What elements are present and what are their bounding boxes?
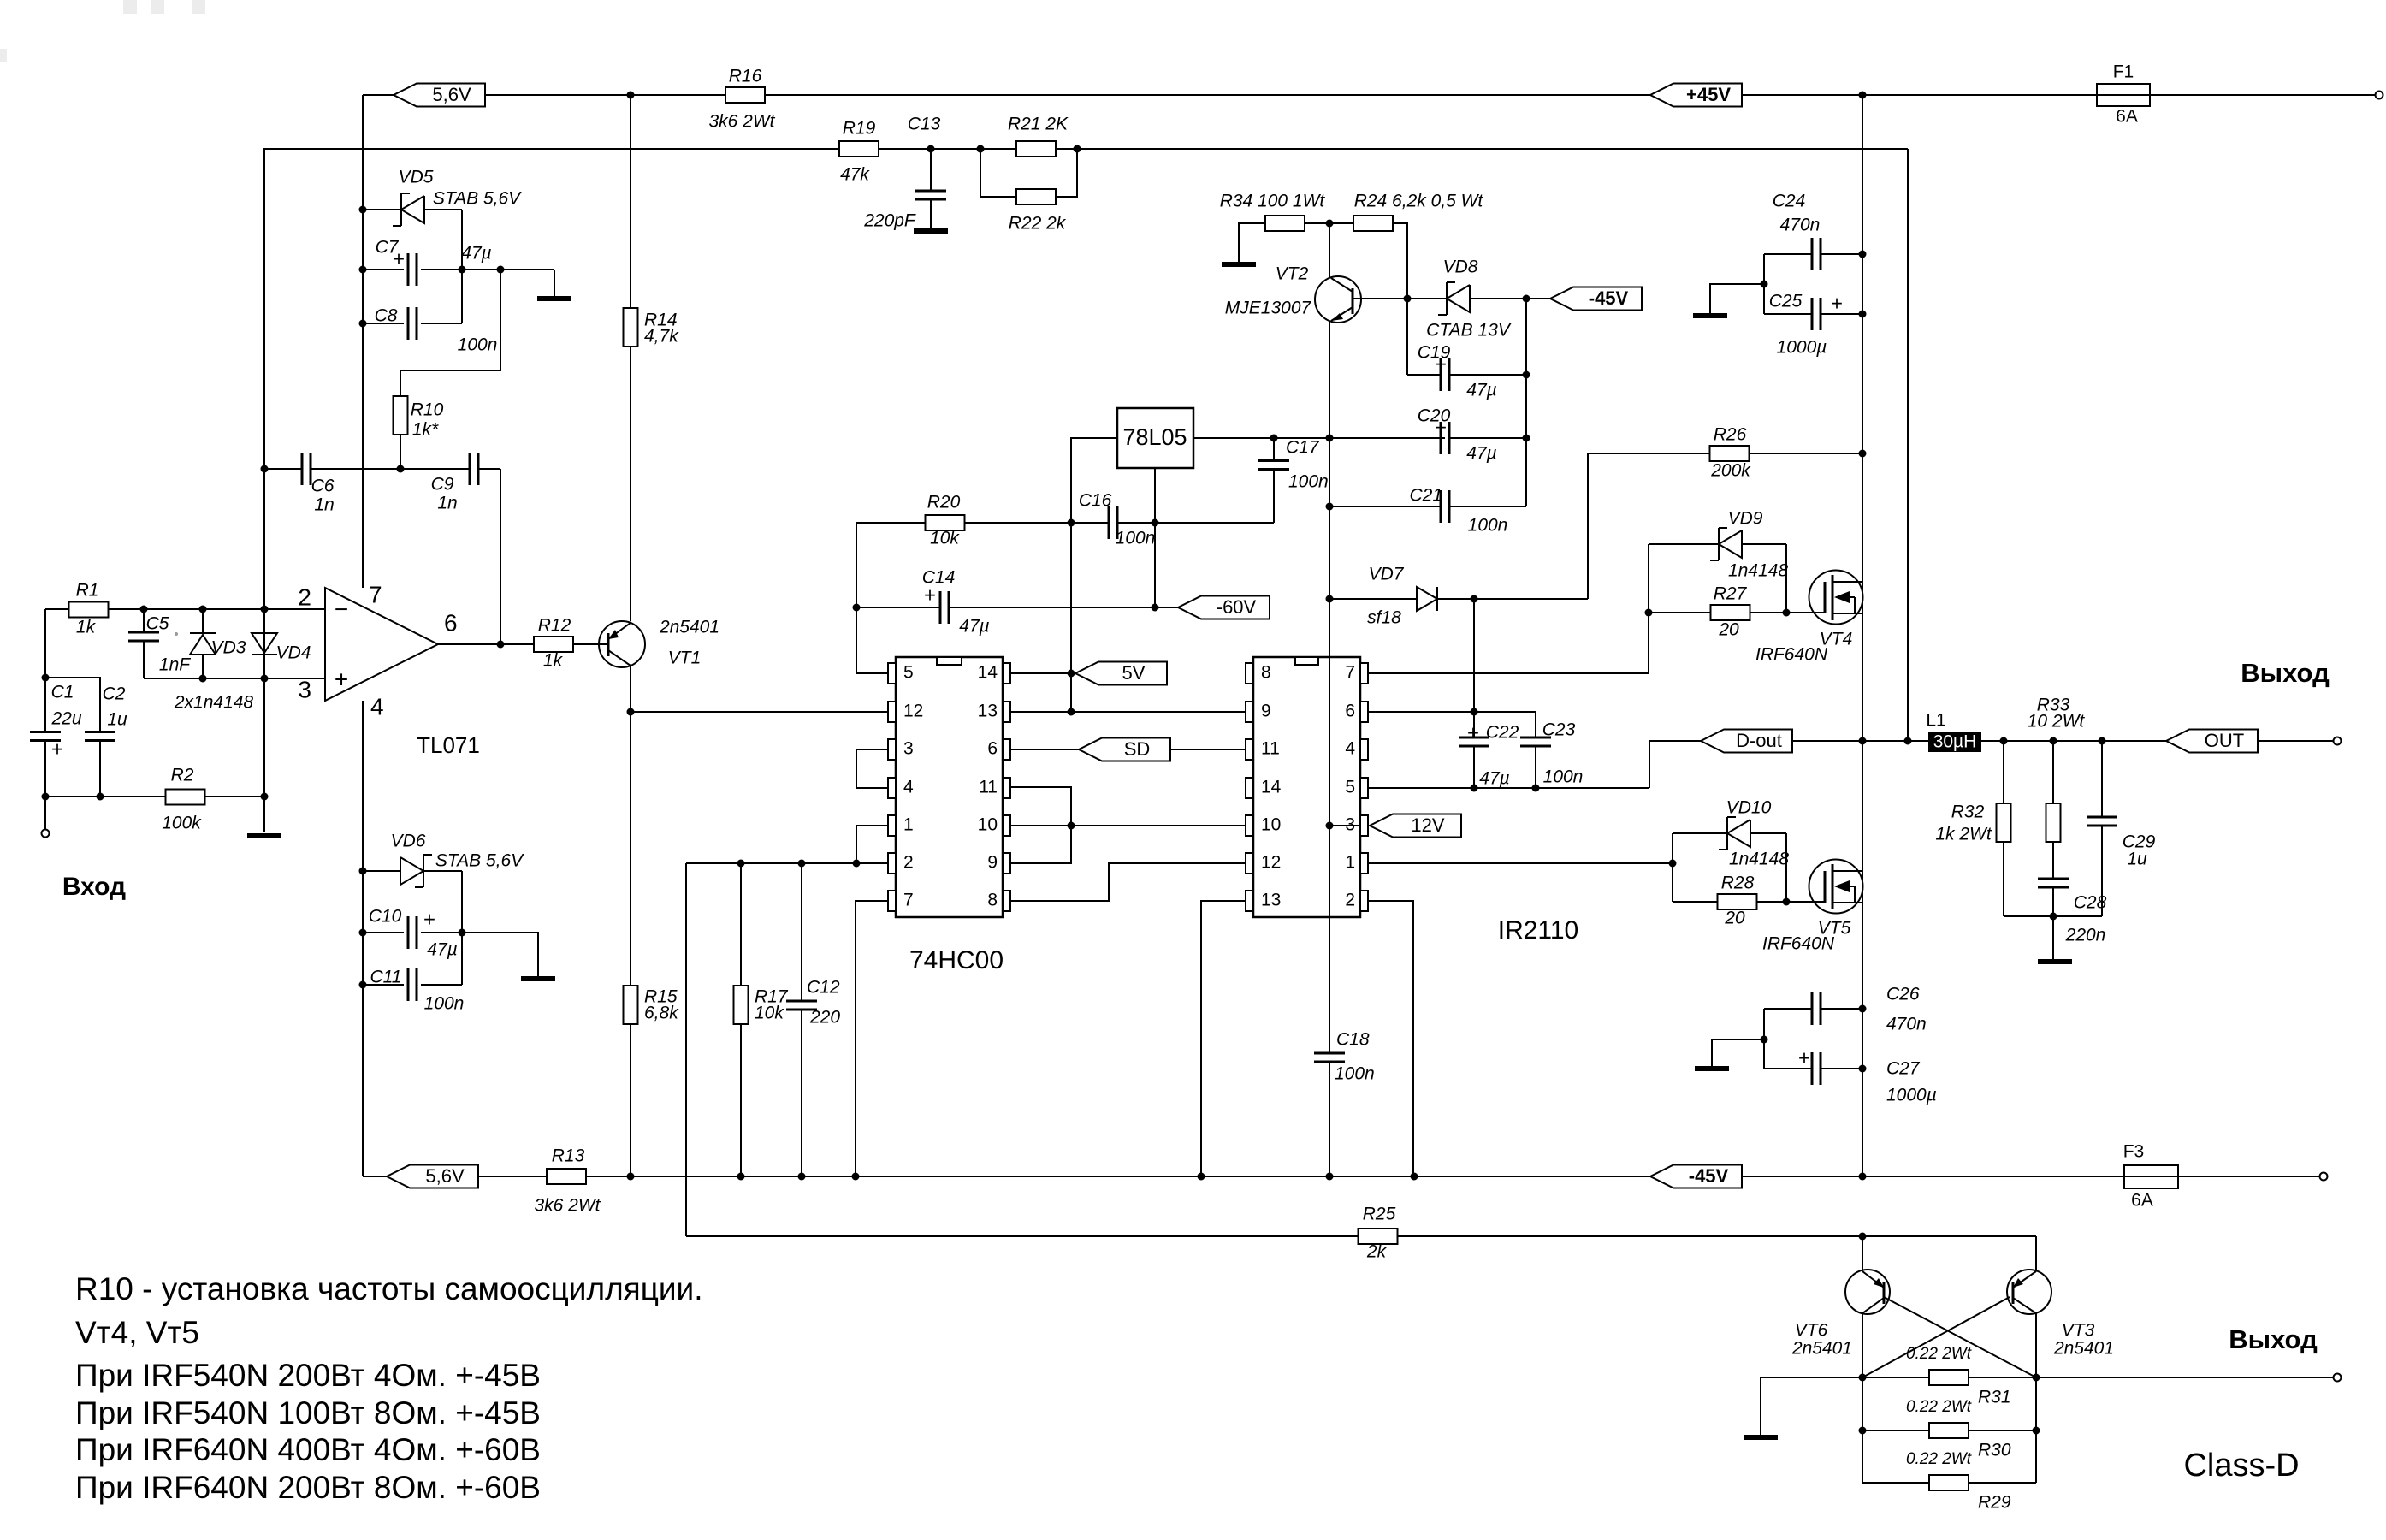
svg-text:R27: R27 xyxy=(1714,584,1748,604)
svg-text:2n5401: 2n5401 xyxy=(659,618,719,637)
capacitor C10 47u xyxy=(363,932,462,933)
terminal OUT xyxy=(2334,737,2342,745)
ground C26 C27 xyxy=(1712,1039,1764,1066)
net flag -45V (bottom) xyxy=(1650,1165,1742,1188)
svg-text:C2: C2 xyxy=(103,684,126,704)
wire R17 branch xyxy=(740,863,742,1176)
svg-text:470n: 470n xyxy=(1780,216,1821,235)
resistor R25 2k xyxy=(1359,1229,1398,1244)
resistor R28 20 xyxy=(1673,901,1718,903)
svg-text:30µH: 30µH xyxy=(1933,732,1977,752)
svg-text:6: 6 xyxy=(444,609,458,636)
svg-text:1n: 1n xyxy=(314,495,334,515)
svg-text:10k: 10k xyxy=(930,529,960,548)
svg-text:R25: R25 xyxy=(1363,1205,1396,1224)
wire input R1 left lead xyxy=(45,609,69,678)
resistor R13 3k6 2Wt xyxy=(547,1169,586,1184)
svg-text:1k*: 1k* xyxy=(412,420,439,440)
svg-text:R34 100 1Wt: R34 100 1Wt xyxy=(1220,192,1326,211)
wire filter bottom row xyxy=(2004,915,2102,917)
svg-text:L1: L1 xyxy=(1926,711,1945,731)
junction dots feedback line xyxy=(927,145,935,153)
svg-text:R29: R29 xyxy=(1978,1493,2011,1513)
junction dot R34 R24 xyxy=(1326,220,1334,228)
svg-text:1u: 1u xyxy=(107,710,127,730)
wire IR2110 pin2 to bottom rail xyxy=(1368,901,1413,1176)
zener diode VD10 1n4148 xyxy=(1673,832,1727,834)
junction dot pin6 row xyxy=(1471,708,1478,716)
wire rail flag to R13 xyxy=(477,1176,547,1177)
wire opamp pin3 line xyxy=(144,678,325,679)
svg-text:100n: 100n xyxy=(1288,472,1329,492)
wire 74HC00 pin2 row xyxy=(686,862,888,864)
net flag SD xyxy=(1079,738,1170,761)
wire 74HC00 pin14 to 5V xyxy=(1010,672,1071,674)
resistor R20 10k xyxy=(926,515,965,530)
svg-text:C25: C25 xyxy=(1769,292,1803,311)
capacitor C14 47u xyxy=(856,607,940,608)
ground output filter xyxy=(2052,916,2054,959)
wire IR2110 pin13 to bottom rail xyxy=(1201,901,1246,1176)
svg-text:47µ: 47µ xyxy=(1479,769,1509,789)
wire VT2 collector xyxy=(1329,223,1330,277)
junction dots bottom rail xyxy=(627,1173,635,1181)
svg-text:VD4: VD4 xyxy=(276,643,311,663)
capacitor C11 100n xyxy=(363,984,462,986)
diode VD4 xyxy=(252,609,277,678)
svg-text:7: 7 xyxy=(369,581,382,607)
svg-text:R24 6,2k 0,5 Wt: R24 6,2k 0,5 Wt xyxy=(1354,192,1484,211)
svg-text:VD10: VD10 xyxy=(1726,798,1772,818)
svg-text:IRF640N: IRF640N xyxy=(1762,934,1835,954)
svg-text:R10 - установка частоты самоос: R10 - установка частоты самоосцилляции. xyxy=(75,1271,703,1306)
wire OUT to terminal xyxy=(2258,740,2333,742)
wire C26 C27 left bracket xyxy=(1763,1009,1765,1069)
svg-text:47k: 47k xyxy=(840,165,870,185)
wire IR2110 pin1 row xyxy=(1368,862,1673,864)
ground C24 C25 xyxy=(1710,284,1764,313)
wire R25 to VT6 VT3 xyxy=(1397,1235,2036,1237)
junction dots R27 xyxy=(1645,609,1653,617)
resistor R34 xyxy=(1265,216,1305,231)
resistor R31 0.22 2Wt xyxy=(1929,1370,1969,1385)
wire R1 to opamp pin2 xyxy=(108,608,325,610)
svg-text:2: 2 xyxy=(1345,891,1355,910)
svg-text:VT6: VT6 xyxy=(1795,1321,1828,1341)
svg-text:R28: R28 xyxy=(1721,874,1755,893)
wire VT6 base cross diagonal xyxy=(1884,1297,2036,1377)
svg-text:8: 8 xyxy=(987,891,998,910)
wire R21 to corner x2230 xyxy=(1056,148,1908,150)
svg-text:4: 4 xyxy=(370,693,384,720)
wire R15 to bottom rail xyxy=(630,1024,631,1176)
svg-text:+: + xyxy=(1435,416,1447,439)
wire 74HC00 pin13 to IR2110 pin9 xyxy=(1010,711,1246,713)
net flag D-out xyxy=(1701,730,1792,753)
svg-text:14: 14 xyxy=(978,663,998,683)
svg-text:STAB 5,6V: STAB 5,6V xyxy=(433,189,522,209)
capacitor C25 1000u xyxy=(1764,313,1812,315)
junction dot pin1 xyxy=(1669,860,1677,868)
svg-text:6: 6 xyxy=(1345,702,1355,721)
wire bottom rail -45V to F3 xyxy=(1741,1176,2124,1177)
capacitor C28 220n xyxy=(2038,879,2069,887)
scan artifact marks xyxy=(0,0,205,62)
IC U2 74HC00 xyxy=(896,657,1003,917)
svg-text:VT1: VT1 xyxy=(668,649,702,668)
svg-text:47µ: 47µ xyxy=(461,244,491,264)
svg-text:R10: R10 xyxy=(411,400,444,420)
junction dots top rail xyxy=(627,92,635,99)
wire R25 row left xyxy=(686,1235,1359,1237)
wire VT3 emitter lead xyxy=(2035,1236,2037,1270)
svg-text:5: 5 xyxy=(1345,778,1355,797)
wire 74HC00 pin5 lead xyxy=(856,523,888,673)
ground VT6 emitter resistors xyxy=(1744,1435,1778,1440)
regulator 78L05 xyxy=(1117,408,1193,468)
svg-text:6A: 6A xyxy=(2116,107,2138,127)
svg-text:4: 4 xyxy=(903,778,914,797)
svg-text:470n: 470n xyxy=(1886,1015,1927,1034)
svg-text:1: 1 xyxy=(903,815,914,835)
svg-text:1n4148: 1n4148 xyxy=(1728,561,1788,581)
capacitor C16 100n xyxy=(1109,506,1117,539)
svg-text:R1: R1 xyxy=(76,581,99,601)
svg-text:R31: R31 xyxy=(1978,1388,2011,1407)
net flag 5,6V (bottom) xyxy=(387,1165,478,1188)
svg-text:C12: C12 xyxy=(807,978,840,998)
svg-text:+: + xyxy=(393,247,405,270)
junction dot R28 gate xyxy=(1783,898,1791,906)
svg-text:14: 14 xyxy=(1261,778,1282,797)
svg-text:1k: 1k xyxy=(76,618,97,637)
net flag +45V xyxy=(1650,84,1742,107)
wire R34-R24 xyxy=(1305,222,1353,224)
wire VT6 collector lead xyxy=(1862,1313,1863,1377)
svg-text:2n5401: 2n5401 xyxy=(2053,1339,2114,1359)
svg-text:C16: C16 xyxy=(1079,491,1112,511)
capacitor C5 1nF xyxy=(143,609,145,678)
wire 74HC00 pin7 to rail xyxy=(856,901,888,1176)
wire 78L05 right pin xyxy=(1193,437,1445,439)
svg-text:4,7k: 4,7k xyxy=(644,327,679,346)
net flag -60V xyxy=(1178,596,1270,619)
wire VD7 row left xyxy=(1329,598,1417,600)
junction dot opamp output xyxy=(497,641,505,649)
svg-text:12: 12 xyxy=(903,702,923,721)
svg-text:1000µ: 1000µ xyxy=(1777,338,1827,358)
svg-text:VD6: VD6 xyxy=(391,832,426,851)
svg-text:D-out: D-out xyxy=(1736,730,1782,751)
svg-text:F3: F3 xyxy=(2123,1142,2145,1162)
wire R24 right down xyxy=(1393,223,1407,299)
terminal -45V xyxy=(2320,1173,2328,1181)
svg-text:47µ: 47µ xyxy=(959,617,989,637)
wire R14 branch x737 xyxy=(630,95,631,621)
svg-text:R26: R26 xyxy=(1714,425,1747,445)
svg-text:C18: C18 xyxy=(1336,1030,1370,1050)
wire VT6 VT3 vertical legs xyxy=(1862,1377,2036,1483)
resistor R17 10k xyxy=(734,986,749,1024)
svg-text:C22: C22 xyxy=(1486,723,1519,743)
ground below R2 node xyxy=(247,833,281,838)
wire SD to IR2110 pin11 xyxy=(1170,749,1246,750)
junction dot VT1 collector xyxy=(627,708,635,716)
junction dots C6 C9 row xyxy=(261,465,269,473)
terminal +45V input xyxy=(2376,92,2383,99)
svg-text:220n: 220n xyxy=(2065,926,2106,945)
wire IR2110 pin12 to 74HC00 pin8 xyxy=(1010,863,1246,901)
resistor R1 1k xyxy=(69,602,109,618)
svg-text:6: 6 xyxy=(987,739,998,759)
fuse F3 xyxy=(2124,1165,2178,1188)
svg-text:C11: C11 xyxy=(370,968,402,987)
svg-text:При IRF640N 400Вт 4Ом. +-60В: При IRF640N 400Вт 4Ом. +-60В xyxy=(75,1432,541,1467)
svg-text:R22 2k: R22 2k xyxy=(1009,214,1067,234)
svg-text:VD9: VD9 xyxy=(1728,509,1763,529)
svg-text:3k6 2Wt: 3k6 2Wt xyxy=(534,1196,601,1216)
wire R31 right to output xyxy=(1968,1377,2333,1378)
wire bottom rail R13 to -45V flag xyxy=(586,1176,1650,1177)
svg-text:-45V: -45V xyxy=(1589,287,1629,309)
svg-text:R16: R16 xyxy=(729,67,762,86)
resistor R32 1k 2Wt xyxy=(2003,741,2004,916)
svg-text:+: + xyxy=(1435,352,1447,376)
svg-text:R20: R20 xyxy=(927,493,961,512)
junction dots VD8 line xyxy=(1404,295,1412,303)
capacitor C17 100n xyxy=(1273,438,1275,523)
wire Dout to L1 xyxy=(1792,740,1928,742)
svg-text:SD: SD xyxy=(1124,738,1151,760)
svg-text:IR2110: IR2110 xyxy=(1498,916,1579,945)
wire IR2110 pin3 to 12V rail xyxy=(1329,825,1360,826)
svg-text:100n: 100n xyxy=(1116,529,1156,548)
wire R31 row left with ground xyxy=(1761,1377,1930,1435)
junction dots C19 C20 C21 xyxy=(1523,371,1530,379)
svg-text:100n: 100n xyxy=(1468,516,1508,536)
zener diode VD8 CTAB 13V xyxy=(1438,282,1470,315)
svg-text:9: 9 xyxy=(987,853,998,873)
svg-text:10 2Wt: 10 2Wt xyxy=(2028,712,2086,731)
wire F1 to terminal xyxy=(2150,94,2375,96)
svg-text:sf18: sf18 xyxy=(1367,608,1401,628)
svg-text:3k6 2Wt: 3k6 2Wt xyxy=(708,112,775,132)
svg-text:6A: 6A xyxy=(2131,1191,2153,1211)
zener diode VD9 1n4148 xyxy=(1649,543,1719,545)
wire -45V local vertical x1784 xyxy=(1525,299,1527,506)
svg-text:100n: 100n xyxy=(424,994,465,1014)
wire x1001 R20-C14-pin5 xyxy=(856,523,857,673)
net flag 5V xyxy=(1075,662,1167,685)
diode VD3 xyxy=(190,609,216,678)
svg-text:+: + xyxy=(335,666,348,692)
wire VD6 right vertical x540 xyxy=(461,871,463,985)
svg-text:12V: 12V xyxy=(1411,814,1444,836)
svg-text:7: 7 xyxy=(903,891,914,910)
junction dots pin2 row xyxy=(737,860,745,868)
svg-text:Вход: Вход xyxy=(62,873,126,901)
wire C9 to opamp output xyxy=(500,469,501,644)
wire +45V power vertical x2177 xyxy=(1862,95,1863,1176)
svg-text:STAB 5,6V: STAB 5,6V xyxy=(435,851,524,871)
svg-text:Vт4, Vт5: Vт4, Vт5 xyxy=(75,1315,199,1350)
svg-text:CTAB 13V: CTAB 13V xyxy=(1426,321,1512,341)
svg-text:9: 9 xyxy=(1261,702,1271,721)
svg-text:Выход: Выход xyxy=(2229,1324,2318,1354)
wire VD7 node down to pin6 row xyxy=(1473,599,1475,737)
wire 74HC00 pin1 bracket xyxy=(856,826,888,863)
svg-text:VT3: VT3 xyxy=(2062,1321,2095,1341)
junction dot R26 right xyxy=(1859,450,1867,458)
resistor R19 xyxy=(839,141,879,157)
svg-text:R2: R2 xyxy=(171,766,194,785)
svg-text:2: 2 xyxy=(298,583,311,610)
svg-text:100k: 100k xyxy=(162,814,202,833)
wire x424 opamp pin4 down to bottom rail xyxy=(362,701,364,1176)
wire VT1 collector down xyxy=(630,666,631,985)
capacitor C23 100n xyxy=(1535,712,1536,788)
svg-text:C8: C8 xyxy=(375,306,398,326)
wire IR2110 pin7 row xyxy=(1368,544,1649,673)
junction dots VD7 row xyxy=(1326,595,1334,603)
wire feedback vertical x309 xyxy=(263,149,265,832)
svg-text:1: 1 xyxy=(1345,853,1355,873)
wire VD10 right bracket xyxy=(1785,833,1787,902)
wire C10 node to ground xyxy=(462,933,538,976)
resistor R24 xyxy=(1353,216,1393,231)
svg-text:2x1n4148: 2x1n4148 xyxy=(174,693,254,713)
svg-text:-60V: -60V xyxy=(1217,596,1257,618)
svg-text:0.22 2Wt: 0.22 2Wt xyxy=(1906,1450,1972,1468)
wire opamp output xyxy=(438,643,535,645)
wire R20 to C16 xyxy=(964,522,1110,524)
wire feedback vertical x2230 xyxy=(1907,149,1909,741)
capacitor C27 1000u xyxy=(1764,1068,1812,1069)
wire Dout tip xyxy=(1649,740,1701,742)
wire 74HC00 pin6 to SD xyxy=(1010,749,1079,750)
resistor R14 4,7k xyxy=(624,308,638,346)
transistor Q VT2 MJE13007 xyxy=(1315,276,1361,323)
svg-text:C6: C6 xyxy=(311,477,335,496)
svg-text:1k: 1k xyxy=(543,651,564,671)
svg-text:220pF: 220pF xyxy=(863,211,916,231)
wire 74HC00 pins3-4 bracket xyxy=(856,749,888,788)
terminal speaker output xyxy=(2334,1374,2342,1382)
svg-text:20: 20 xyxy=(1724,909,1745,928)
svg-text:220: 220 xyxy=(809,1008,840,1028)
svg-text:1n4148: 1n4148 xyxy=(1729,850,1789,869)
wire 74HC00 pins 11 10 9 bracket xyxy=(1010,787,1071,863)
svg-text:C10: C10 xyxy=(369,907,402,927)
svg-text:4: 4 xyxy=(1345,739,1355,759)
resistor R21 xyxy=(1016,141,1056,157)
svg-text:R12: R12 xyxy=(538,616,571,636)
junction dots R2 row xyxy=(42,793,50,801)
resistor R27 20 xyxy=(1649,612,1711,613)
transistor Q VT1 2n5401 xyxy=(599,621,645,667)
transistor Q VT6 2n5401 xyxy=(1845,1270,1890,1314)
svg-text:R30: R30 xyxy=(1978,1441,2011,1460)
junction dots opamp input xyxy=(140,606,148,613)
junction dot R25 VT6 xyxy=(1859,1233,1867,1241)
svg-text:3: 3 xyxy=(298,676,311,702)
capacitor C26 470n xyxy=(1764,1008,1812,1010)
junction dots pin5 row xyxy=(1471,785,1478,792)
svg-text:47µ: 47µ xyxy=(427,940,457,960)
svg-text:+: + xyxy=(423,908,435,931)
capacitor C18 100n xyxy=(1314,1053,1345,1062)
IC U3 IR2110 xyxy=(1253,657,1360,917)
svg-text:F1: F1 xyxy=(2113,62,2134,82)
junction dots C24 C25 xyxy=(1859,251,1867,258)
svg-text:VD5: VD5 xyxy=(399,168,434,187)
junction dots R30 row xyxy=(1859,1427,1867,1435)
svg-text:20: 20 xyxy=(1718,620,1739,640)
terminal input xyxy=(42,830,50,838)
wire IR2110 pin5 row xyxy=(1368,741,1649,788)
svg-text:C5: C5 xyxy=(146,614,169,634)
resistor R15 6,8k xyxy=(624,986,638,1024)
svg-text:+: + xyxy=(1831,292,1843,315)
wire R2 row xyxy=(45,796,166,797)
capacitor C9 1n xyxy=(400,468,500,470)
svg-text:200k: 200k xyxy=(1710,461,1751,481)
svg-text:2k: 2k xyxy=(1366,1242,1388,1262)
resistor R16 xyxy=(725,87,765,103)
wire VT1 collector to 74HC00 pin12 xyxy=(631,711,888,713)
zener diode VD6 STAB 5,6V xyxy=(363,870,400,872)
junction dots R31 row xyxy=(1859,1374,1867,1382)
svg-text:Выход: Выход xyxy=(2241,658,2330,688)
svg-text:47µ: 47µ xyxy=(1466,444,1496,464)
svg-text:R13: R13 xyxy=(552,1146,585,1166)
wire R12 to VT1 base xyxy=(572,643,608,645)
svg-text:C1: C1 xyxy=(51,683,74,702)
svg-text:100n: 100n xyxy=(1543,767,1584,787)
svg-text:100n: 100n xyxy=(458,335,498,355)
wire x1645 to C19 xyxy=(1406,299,1408,375)
svg-text:1k 2Wt: 1k 2Wt xyxy=(1935,825,1992,844)
junction dots 78L05 area xyxy=(1068,519,1075,527)
svg-text:R19: R19 xyxy=(843,119,876,139)
wire VT3 base cross diagonal xyxy=(1862,1297,2010,1377)
svg-text:VD7: VD7 xyxy=(1369,565,1405,584)
svg-text:47µ: 47µ xyxy=(1466,381,1496,400)
svg-text:C26: C26 xyxy=(1886,985,1920,1004)
transistor VT4 IRF640N mosfet xyxy=(1809,571,1863,625)
svg-text:13: 13 xyxy=(978,702,998,721)
svg-text:5V: 5V xyxy=(1122,662,1146,684)
fuse F1 xyxy=(2097,84,2150,106)
wire 74HC00 pin10 to IR2110 pin10 xyxy=(1010,825,1246,826)
svg-text:VD8: VD8 xyxy=(1443,258,1478,277)
wire L1 to OUT xyxy=(1981,740,2166,742)
wire bottom rail left corner xyxy=(363,1176,387,1177)
svg-text:C17: C17 xyxy=(1286,438,1320,458)
capacitor C8 100n xyxy=(363,323,462,324)
junction dot pin3 12V xyxy=(1326,822,1334,830)
wire VD10 left bracket xyxy=(1672,833,1673,902)
inductor L1 30uH xyxy=(1928,731,1981,752)
svg-text:OUT: OUT xyxy=(2205,730,2244,751)
op-amp U1 TL071 triangle xyxy=(325,588,438,701)
transistor Q VT3 2n5401 xyxy=(2007,1270,2051,1314)
net flag 5,6V (top) xyxy=(394,84,485,107)
svg-text:C27: C27 xyxy=(1886,1059,1921,1079)
net flag 12V xyxy=(1370,814,1461,838)
capacitor C21 100n xyxy=(1329,506,1441,507)
svg-text:−: − xyxy=(335,595,348,622)
